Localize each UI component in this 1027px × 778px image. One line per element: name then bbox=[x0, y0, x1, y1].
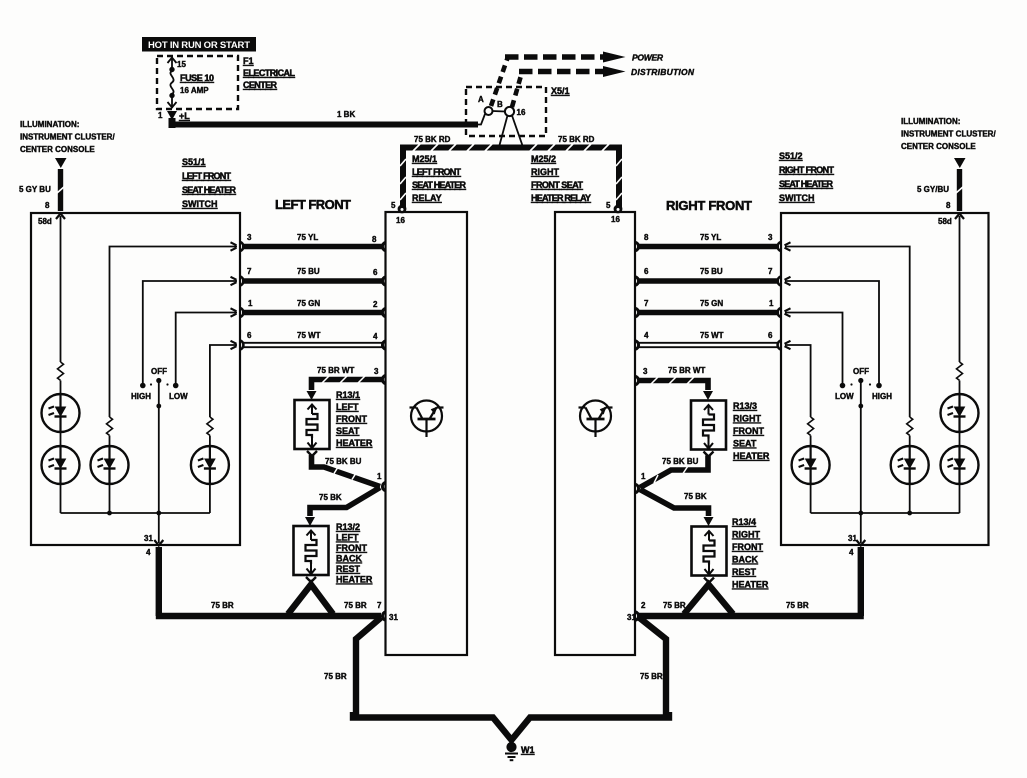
wire lampR1 to lampR2 bbox=[959, 432, 961, 446]
svg-text:1: 1 bbox=[377, 472, 382, 481]
wire 5 GY/BU right bbox=[956, 169, 964, 211]
svg-text:16: 16 bbox=[611, 215, 620, 224]
svg-text:FRONT SEAT: FRONT SEAT bbox=[531, 180, 584, 190]
wire from pin 1 to LOW contact bbox=[176, 313, 237, 385]
wire ground bus bottom bbox=[353, 712, 669, 740]
wire resistor to lamp L4 bbox=[209, 436, 211, 447]
wire 75 BU left bbox=[242, 278, 382, 284]
svg-text:RIGHT: RIGHT bbox=[732, 530, 761, 540]
svg-text:CENTER: CENTER bbox=[243, 80, 278, 90]
svg-text:FRONT: FRONT bbox=[336, 414, 367, 424]
svg-text:POWER: POWER bbox=[632, 53, 664, 63]
transistor symbol in M25/1 bbox=[410, 401, 444, 438]
resistor above lamp L4 bbox=[207, 417, 213, 435]
heater element R13/4 bbox=[692, 527, 727, 583]
svg-text:+L: +L bbox=[179, 111, 190, 121]
svg-text:8: 8 bbox=[946, 201, 951, 210]
resistor above lamps left bbox=[58, 362, 64, 380]
wire 75 BR WT left (M25/1 pin 3 to R13/1) bbox=[312, 376, 383, 390]
arrow into R13/1 bbox=[307, 391, 317, 400]
svg-text:SEAT: SEAT bbox=[733, 439, 757, 449]
switch contacts HIGH OFF LOW left bbox=[140, 378, 179, 388]
svg-text:SWITCH: SWITCH bbox=[182, 199, 218, 209]
svg-text:ILLUMINATION:: ILLUMINATION: bbox=[901, 117, 960, 126]
svg-text:SEAT: SEAT bbox=[336, 426, 360, 436]
svg-text:FRONT: FRONT bbox=[733, 426, 764, 436]
svg-text:75 BR: 75 BR bbox=[344, 601, 367, 610]
connector at S51/1 pin 7 bbox=[231, 276, 244, 285]
svg-text:5: 5 bbox=[606, 201, 611, 210]
wire 75 BK BU left (R13/1 to M25/1 pin 1) bbox=[312, 455, 381, 487]
svg-text:HEATER: HEATER bbox=[336, 438, 373, 448]
terminal M25/1 pin 2 bbox=[382, 308, 385, 316]
bus wire inside S51/2 bbox=[811, 511, 960, 516]
svg-text:75 BR: 75 BR bbox=[663, 601, 686, 610]
svg-text:3: 3 bbox=[374, 367, 379, 376]
wire 75 YL right bbox=[638, 244, 779, 250]
wire 75 GN right bbox=[638, 310, 779, 316]
label block S51/2 bbox=[779, 151, 835, 203]
svg-text:1: 1 bbox=[158, 111, 163, 120]
svg-text:75 WT: 75 WT bbox=[700, 331, 724, 340]
svg-text:58d: 58d bbox=[38, 217, 52, 226]
wire 75 BK RD left (to M25/1 pin 5) bbox=[400, 144, 523, 209]
indicator lamp R3 bbox=[891, 446, 929, 484]
wire switch wiper to exit left bbox=[156, 382, 161, 543]
svg-text:75 BK: 75 BK bbox=[684, 492, 707, 501]
switch S51/1 box bbox=[31, 213, 240, 545]
terminal 16 bbox=[505, 107, 514, 116]
svg-text:A: A bbox=[478, 95, 484, 104]
svg-text:7: 7 bbox=[768, 267, 773, 276]
wire 75 BU right bbox=[638, 278, 779, 284]
svg-text:R13/2: R13/2 bbox=[336, 522, 360, 532]
wire illumination branch inside S51/1 bbox=[60, 216, 62, 362]
wire 75 BR WT right (M25/2 pin 3 to R13/3) bbox=[638, 377, 708, 390]
svg-text:75 YL: 75 YL bbox=[297, 233, 318, 242]
wire 75 BR horizontal left bbox=[156, 613, 381, 619]
wire 75 GN left bbox=[242, 310, 382, 316]
connector at S51/2 pin 7 bbox=[778, 276, 791, 285]
transistor symbol in M25/2 bbox=[579, 401, 613, 438]
svg-text:M25/2: M25/2 bbox=[531, 154, 556, 164]
power feed arrow DISTRIBUTION bbox=[519, 66, 626, 77]
svg-text:HOT IN RUN OR START: HOT IN RUN OR START bbox=[148, 40, 250, 51]
svg-text:OFF: OFF bbox=[853, 367, 869, 376]
svg-text:S51/1: S51/1 bbox=[182, 157, 206, 167]
power feed arrow POWER bbox=[505, 52, 626, 63]
svg-text:R13/4: R13/4 bbox=[732, 517, 756, 527]
svg-text:M25/1: M25/1 bbox=[412, 154, 437, 164]
wire from pin 3 to lamp L3 branch bbox=[110, 247, 238, 418]
wire 75 BR from S51/2 to M25/2 pin 31 bbox=[858, 547, 864, 616]
svg-text:INSTRUMENT CLUSTER/: INSTRUMENT CLUSTER/ bbox=[901, 130, 996, 139]
svg-text:2: 2 bbox=[373, 300, 378, 309]
svg-text:LEFT: LEFT bbox=[336, 402, 359, 412]
svg-text:3: 3 bbox=[768, 233, 773, 242]
svg-text:4: 4 bbox=[146, 548, 151, 557]
label block S51/1 bbox=[182, 157, 237, 209]
wire from pin 1 to LOW contact right bbox=[785, 313, 843, 385]
wire 75 BR from S51/1 to M25/1 pin 31 bbox=[156, 547, 162, 616]
wire resistor to lamp R3 bbox=[909, 436, 911, 447]
connector at S51/2 pin 1 bbox=[778, 308, 791, 317]
wire resistor to lamp R4 bbox=[810, 436, 812, 447]
svg-text:75 WT: 75 WT bbox=[297, 331, 321, 340]
svg-text:FRONT: FRONT bbox=[732, 542, 763, 552]
wire 75 BR horizontal right bbox=[639, 613, 864, 619]
wire 75 YL left bbox=[242, 244, 382, 250]
svg-text:REST: REST bbox=[336, 564, 361, 574]
svg-text:6: 6 bbox=[373, 268, 378, 277]
svg-text:SEAT HEATER: SEAT HEATER bbox=[779, 179, 834, 189]
svg-text:75 BR: 75 BR bbox=[324, 672, 347, 681]
svg-text:8: 8 bbox=[644, 233, 649, 242]
svg-text:4: 4 bbox=[644, 331, 649, 340]
arrow from illumination feed right bbox=[954, 158, 966, 168]
label block R13/2 bbox=[336, 522, 373, 585]
svg-text:FRONT: FRONT bbox=[336, 543, 367, 553]
svg-text:16: 16 bbox=[396, 216, 405, 225]
wire from pin 7 to HIGH contact right bbox=[785, 281, 879, 384]
terminal M25/1 pin 5 bbox=[398, 205, 407, 214]
terminal arrow exit S51/2 bbox=[856, 540, 865, 546]
arrow into R13/4 bbox=[704, 517, 714, 526]
wire step inside X5/1 bbox=[476, 114, 485, 125]
terminal M25/1 pin 6 bbox=[382, 277, 385, 285]
terminal M25/2 pin 6 bbox=[636, 277, 639, 285]
svg-text:RELAY: RELAY bbox=[412, 193, 442, 203]
svg-text:15: 15 bbox=[177, 60, 186, 69]
wire lampR4 to bus bbox=[810, 484, 812, 513]
svg-text:75 BR: 75 BR bbox=[211, 601, 234, 610]
svg-text:ILLUMINATION:: ILLUMINATION: bbox=[20, 120, 79, 129]
electrical center F1 dashed box bbox=[157, 56, 238, 109]
dashed riser to POWER arrow bbox=[491, 58, 508, 106]
connector at S51/1 pin 1 bbox=[231, 308, 244, 317]
svg-text:8: 8 bbox=[372, 235, 377, 244]
svg-text:75 BR WT: 75 BR WT bbox=[668, 366, 705, 375]
wire terminal A to terminal 16 bbox=[493, 110, 506, 113]
svg-text:DISTRIBUTION: DISTRIBUTION bbox=[631, 67, 695, 77]
wire V legs from terminal 16 bbox=[499, 116, 523, 148]
switch contacts LOW OFF HIGH right bbox=[840, 378, 882, 388]
indicator lamp R1 bbox=[941, 394, 979, 432]
terminal M25/2 pin 5 bbox=[614, 205, 623, 214]
terminal M25/2 pin 7 bbox=[636, 308, 639, 316]
svg-text:HEATER: HEATER bbox=[336, 575, 373, 585]
svg-text:6: 6 bbox=[644, 267, 649, 276]
svg-text:75 BK RD: 75 BK RD bbox=[414, 135, 451, 144]
svg-text:5 GY/BU: 5 GY/BU bbox=[917, 185, 949, 194]
wire resistor to lamp L3 bbox=[109, 436, 111, 447]
wire lamp2 to bus bbox=[60, 484, 62, 513]
svg-text:X5/1: X5/1 bbox=[551, 86, 570, 96]
resistor above lamps right bbox=[957, 362, 963, 380]
svg-text:5: 5 bbox=[391, 201, 396, 210]
svg-text:31: 31 bbox=[627, 613, 636, 622]
terminal M25/2 pin 4 bbox=[636, 341, 639, 349]
svg-text:RIGHT: RIGHT bbox=[531, 167, 560, 177]
label ILLUMINATION left bbox=[20, 120, 115, 154]
wire 75 BK right (M25/2 pin 1 to R13/4) bbox=[640, 490, 709, 517]
svg-text:LOW: LOW bbox=[169, 392, 188, 401]
svg-text:RIGHT FRONT: RIGHT FRONT bbox=[666, 198, 752, 213]
terminal M25/2 pin 31 bbox=[636, 612, 639, 620]
terminal M25/2 pin 8 bbox=[636, 242, 639, 250]
svg-text:75 YL: 75 YL bbox=[700, 233, 721, 242]
wire 75 BR down from M25/2 pin 31 bbox=[639, 618, 666, 716]
svg-text:16 AMP: 16 AMP bbox=[180, 86, 209, 95]
wire lamp1 to lamp2 bbox=[60, 432, 62, 446]
dashed riser to DISTRIBUTION arrow bbox=[512, 72, 522, 107]
svg-text:BACK: BACK bbox=[336, 554, 362, 564]
svg-text:REST: REST bbox=[732, 567, 757, 577]
relay M25/1 box bbox=[386, 212, 468, 655]
connector X5/1 dashed box bbox=[466, 87, 546, 136]
indicator lamp R4 bbox=[792, 446, 830, 484]
terminal arrow entering S51/1 pin 8 bbox=[56, 214, 65, 220]
wire from pin 3 to lamp R3 branch bbox=[785, 247, 910, 418]
svg-text:INSTRUMENT CLUSTER/: INSTRUMENT CLUSTER/ bbox=[20, 133, 115, 142]
svg-text:31: 31 bbox=[848, 534, 857, 543]
svg-text:LEFT FRONT: LEFT FRONT bbox=[412, 167, 462, 177]
wire 75 BK BU right (R13/3 to M25/2 pin 1) bbox=[640, 456, 708, 488]
svg-text:4: 4 bbox=[373, 332, 378, 341]
label block R13/3 bbox=[733, 401, 770, 461]
svg-text:S51/2: S51/2 bbox=[779, 151, 803, 161]
svg-text:75 BK BU: 75 BK BU bbox=[325, 457, 362, 466]
connector at S51/1 pin 3 bbox=[231, 242, 244, 251]
svg-text:CENTER CONSOLE: CENTER CONSOLE bbox=[20, 145, 95, 154]
svg-text:7: 7 bbox=[377, 601, 382, 610]
wire 75 BK left (M25/1 pin 1 to R13/2) bbox=[310, 488, 380, 517]
svg-text:LEFT FRONT: LEFT FRONT bbox=[182, 171, 232, 181]
indicator lamp L3 bbox=[91, 446, 129, 484]
label block M25/1 bbox=[412, 154, 467, 203]
wire resistor to lamp bbox=[60, 381, 62, 395]
svg-text:75 BK RD: 75 BK RD bbox=[558, 135, 595, 144]
svg-text:3: 3 bbox=[247, 233, 252, 242]
svg-text:1: 1 bbox=[641, 472, 646, 481]
wire 75 WT left (double line) bbox=[242, 343, 382, 347]
svg-text:W1: W1 bbox=[521, 745, 535, 755]
wire 75 BR down from M25/1 pin 31 bbox=[356, 618, 381, 716]
svg-text:75 GN: 75 GN bbox=[297, 299, 320, 308]
terminal M25/2 pin 1 bbox=[636, 484, 639, 492]
svg-text:LOW: LOW bbox=[835, 392, 854, 401]
wire teepee below R13/4 bbox=[684, 585, 733, 615]
terminal A bbox=[485, 107, 493, 115]
label block M25/2 bbox=[531, 154, 591, 203]
wire teepee below R13/2 bbox=[288, 585, 333, 615]
relay M25/2 box bbox=[555, 212, 635, 655]
terminal M25/1 pin 31 bbox=[382, 612, 385, 620]
svg-text:R13/1: R13/1 bbox=[336, 390, 360, 400]
wire lamp3 to bus bbox=[109, 484, 111, 513]
svg-text:75 BK BU: 75 BK BU bbox=[662, 457, 699, 466]
wire from pin 7 to HIGH contact bbox=[143, 281, 237, 384]
svg-text:LEFT FRONT: LEFT FRONT bbox=[275, 197, 351, 212]
svg-text:FUSE 10: FUSE 10 bbox=[180, 73, 214, 83]
terminal M25/1 pin 4 bbox=[382, 341, 385, 349]
wire resistor to lamp right bbox=[959, 381, 961, 395]
ground W1 bbox=[505, 742, 518, 760]
svg-text:6: 6 bbox=[247, 331, 252, 340]
switch S51/2 box bbox=[781, 213, 989, 545]
wire 1 BK bbox=[169, 118, 479, 128]
label ILLUMINATION right bbox=[901, 117, 996, 151]
terminal arrow below fuse box bbox=[167, 111, 177, 120]
wire illumination branch inside S51/2 bbox=[959, 216, 961, 362]
svg-text:58d: 58d bbox=[938, 217, 952, 226]
indicator lamp R2 bbox=[941, 446, 979, 484]
terminal arrow entering S51/2 pin 8 bbox=[955, 214, 964, 220]
terminal M25/2 pin 3 bbox=[636, 376, 639, 384]
svg-text:5 GY BU: 5 GY BU bbox=[19, 185, 51, 194]
svg-text:RIGHT FRONT: RIGHT FRONT bbox=[779, 165, 835, 175]
connector at S51/2 pin 3 bbox=[778, 242, 791, 251]
bus wire inside S51/1 bbox=[61, 511, 210, 516]
svg-text:HEATER RELAY: HEATER RELAY bbox=[531, 193, 591, 203]
header HOT IN RUN OR START bbox=[142, 37, 256, 52]
wire lampR2 to bus bbox=[959, 484, 961, 513]
svg-text:75 BR WT: 75 BR WT bbox=[317, 366, 354, 375]
svg-text:7: 7 bbox=[247, 267, 252, 276]
wire switch wiper to exit right bbox=[858, 382, 863, 543]
terminal arrow exit S51/1 bbox=[154, 540, 163, 546]
svg-text:RIGHT: RIGHT bbox=[733, 414, 762, 424]
indicator lamp L1 bbox=[42, 394, 80, 432]
wire 75 WT right (double line) bbox=[638, 343, 779, 347]
svg-text:16: 16 bbox=[517, 108, 526, 117]
svg-text:4: 4 bbox=[849, 548, 854, 557]
resistor above lamp L3 bbox=[107, 417, 113, 435]
terminal M25/1 pin 3 bbox=[382, 375, 385, 383]
svg-text:SWITCH: SWITCH bbox=[779, 193, 815, 203]
wire from pin 6 to lamp L4 branch bbox=[210, 345, 237, 417]
svg-text:1 BK: 1 BK bbox=[337, 110, 355, 119]
svg-text:B: B bbox=[497, 100, 503, 109]
svg-text:BACK: BACK bbox=[732, 555, 758, 565]
wire lampR3 to bus bbox=[909, 484, 911, 513]
svg-text:8: 8 bbox=[45, 201, 50, 210]
label block R13/1 bbox=[336, 390, 373, 448]
wire 5 GY BU left bbox=[57, 169, 65, 211]
svg-text:3: 3 bbox=[643, 367, 648, 376]
svg-text:75 BR: 75 BR bbox=[786, 601, 809, 610]
svg-text:1: 1 bbox=[769, 299, 774, 308]
wire from pin 6 to lamp R4 branch bbox=[785, 345, 811, 417]
heater element R13/1 bbox=[295, 400, 330, 456]
arrow from illumination feed left bbox=[55, 158, 67, 168]
wire 75 BK RD right (to M25/2 pin 5) bbox=[523, 144, 622, 209]
svg-text:31: 31 bbox=[144, 534, 153, 543]
arrow into R13/3 bbox=[703, 391, 713, 400]
svg-text:75 BU: 75 BU bbox=[700, 267, 723, 276]
indicator lamp L2 bbox=[42, 446, 80, 484]
heater element R13/2 bbox=[294, 526, 329, 582]
connector at S51/2 pin 6 bbox=[778, 340, 791, 349]
svg-text:75 BR: 75 BR bbox=[640, 672, 663, 681]
svg-text:ELECTRICAL: ELECTRICAL bbox=[243, 68, 296, 78]
arrow into R13/2 bbox=[305, 517, 315, 526]
svg-text:1: 1 bbox=[248, 299, 253, 308]
svg-text:31: 31 bbox=[389, 613, 398, 622]
svg-text:CENTER CONSOLE: CENTER CONSOLE bbox=[901, 142, 976, 151]
resistor above lamp R4 bbox=[808, 417, 814, 435]
svg-text:SEAT HEATER: SEAT HEATER bbox=[182, 185, 237, 195]
svg-text:2: 2 bbox=[641, 601, 646, 610]
svg-text:HEATER: HEATER bbox=[733, 451, 770, 461]
label block R13/4 bbox=[732, 517, 769, 590]
resistor above lamp R3 bbox=[907, 417, 913, 435]
terminal M25/1 pin 8 bbox=[382, 242, 385, 250]
connector at S51/1 pin 6 bbox=[231, 340, 244, 349]
indicator lamp L4 bbox=[191, 446, 229, 484]
svg-text:7: 7 bbox=[644, 299, 649, 308]
svg-text:6: 6 bbox=[768, 331, 773, 340]
terminal M25/1 pin 1 bbox=[382, 482, 385, 490]
svg-text:LEFT: LEFT bbox=[336, 533, 359, 543]
svg-text:F1: F1 bbox=[243, 56, 254, 66]
fuse FUSE 10 bbox=[168, 57, 177, 108]
svg-text:75 BU: 75 BU bbox=[297, 267, 320, 276]
heater element R13/3 bbox=[691, 401, 726, 457]
svg-text:HIGH: HIGH bbox=[131, 392, 151, 401]
svg-text:R13/3: R13/3 bbox=[733, 401, 757, 411]
svg-text:HEATER: HEATER bbox=[732, 580, 769, 590]
svg-text:SEAT HEATER: SEAT HEATER bbox=[412, 180, 467, 190]
wire lamp4 to bus bbox=[209, 484, 211, 513]
svg-text:75 GN: 75 GN bbox=[700, 299, 723, 308]
svg-text:75 BK: 75 BK bbox=[319, 493, 342, 502]
svg-text:HIGH: HIGH bbox=[872, 392, 892, 401]
svg-text:OFF: OFF bbox=[151, 367, 167, 376]
